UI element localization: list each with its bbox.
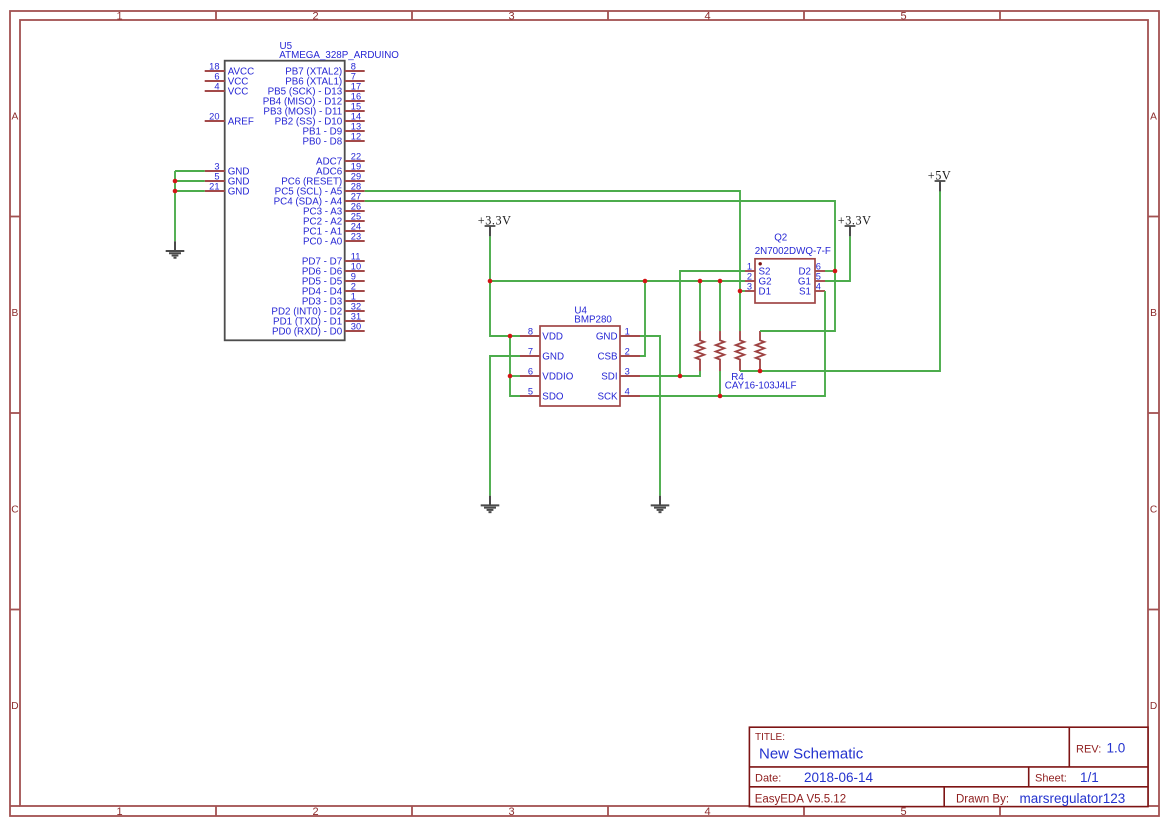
svg-text:SDI: SDI (601, 371, 617, 382)
svg-text:5: 5 (900, 806, 906, 818)
svg-text:CSB: CSB (597, 351, 618, 362)
svg-text:2018-06-14: 2018-06-14 (804, 770, 874, 785)
svg-text:25: 25 (351, 212, 361, 222)
svg-text:ATMEGA_328P_ARDUINO: ATMEGA_328P_ARDUINO (279, 50, 399, 61)
svg-text:3: 3 (508, 11, 514, 23)
svg-text:TITLE:: TITLE: (755, 732, 785, 743)
svg-text:GND: GND (596, 331, 618, 342)
svg-text:2N7002DWQ-7-F: 2N7002DWQ-7-F (755, 246, 831, 257)
svg-text:2: 2 (312, 11, 318, 23)
svg-text:5: 5 (900, 11, 906, 23)
svg-text:1: 1 (116, 11, 122, 23)
svg-text:3: 3 (747, 282, 752, 292)
svg-text:15: 15 (351, 102, 361, 112)
svg-text:27: 27 (351, 192, 361, 202)
svg-text:Q2: Q2 (774, 232, 787, 243)
svg-text:4: 4 (704, 11, 710, 23)
svg-text:SCK: SCK (597, 391, 618, 402)
svg-text:24: 24 (351, 222, 361, 232)
svg-text:4: 4 (704, 806, 710, 818)
svg-text:22: 22 (351, 152, 361, 162)
svg-text:1: 1 (747, 262, 752, 272)
svg-text:7: 7 (351, 72, 356, 82)
svg-text:16: 16 (351, 92, 361, 102)
svg-text:D: D (1150, 701, 1157, 712)
svg-text:8: 8 (351, 62, 356, 72)
svg-text:1: 1 (625, 327, 630, 337)
svg-text:3: 3 (625, 367, 630, 377)
svg-text:2: 2 (351, 282, 356, 292)
svg-text:Date:: Date: (755, 773, 781, 785)
svg-text:2: 2 (312, 806, 318, 818)
svg-text:+3.3V: +3.3V (838, 213, 872, 227)
svg-text:6: 6 (816, 262, 821, 272)
svg-text:29: 29 (351, 172, 361, 182)
svg-text:BMP280: BMP280 (574, 315, 612, 326)
svg-text:4: 4 (214, 82, 219, 92)
svg-text:13: 13 (351, 122, 361, 132)
svg-text:2: 2 (747, 272, 752, 282)
svg-text:A: A (12, 111, 19, 122)
svg-text:A: A (1150, 111, 1157, 122)
svg-text:4: 4 (625, 387, 630, 397)
svg-text:EasyEDA V5.5.12: EasyEDA V5.5.12 (755, 793, 846, 805)
svg-text:2: 2 (625, 347, 630, 357)
svg-text:GND: GND (228, 186, 250, 197)
svg-text:D: D (11, 701, 18, 712)
svg-text:VDDIO: VDDIO (542, 371, 573, 382)
svg-text:7: 7 (528, 347, 533, 357)
svg-text:B: B (12, 308, 19, 319)
svg-text:D1: D1 (759, 286, 772, 297)
svg-text:14: 14 (351, 112, 361, 122)
svg-text:20: 20 (209, 112, 219, 122)
svg-text:8: 8 (528, 327, 533, 337)
svg-text:4: 4 (816, 282, 821, 292)
svg-text:19: 19 (351, 162, 361, 172)
svg-text:18: 18 (209, 62, 219, 72)
svg-text:5: 5 (214, 172, 219, 182)
svg-text:C: C (1150, 504, 1157, 515)
svg-text:5: 5 (528, 387, 533, 397)
svg-text:New Schematic: New Schematic (759, 746, 864, 763)
svg-text:+3.3V: +3.3V (478, 213, 512, 227)
svg-text:31: 31 (351, 312, 361, 322)
svg-text:S1: S1 (799, 286, 811, 297)
svg-text:marsregulator123: marsregulator123 (1020, 791, 1126, 806)
svg-text:PB0 - D8: PB0 - D8 (302, 136, 342, 147)
svg-text:VCC: VCC (228, 86, 249, 97)
svg-text:3: 3 (508, 806, 514, 818)
svg-text:23: 23 (351, 232, 361, 242)
svg-text:6: 6 (214, 72, 219, 82)
svg-text:PC0 - A0: PC0 - A0 (303, 236, 343, 247)
svg-text:1: 1 (351, 292, 356, 302)
svg-text:32: 32 (351, 302, 361, 312)
svg-text:12: 12 (351, 132, 361, 142)
svg-text:GND: GND (542, 351, 564, 362)
svg-text:28: 28 (351, 182, 361, 192)
svg-text:Drawn By:: Drawn By: (956, 793, 1009, 805)
svg-text:1.0: 1.0 (1107, 741, 1126, 756)
svg-text:CAY16-103J4LF: CAY16-103J4LF (725, 381, 797, 392)
svg-text:C: C (11, 504, 18, 515)
svg-text:1: 1 (116, 806, 122, 818)
svg-text:21: 21 (209, 182, 219, 192)
svg-text:10: 10 (351, 262, 361, 272)
svg-text:1/1: 1/1 (1080, 770, 1099, 785)
svg-text:17: 17 (351, 82, 361, 92)
svg-text:3: 3 (214, 162, 219, 172)
svg-text:Sheet:: Sheet: (1035, 773, 1067, 785)
svg-text:11: 11 (351, 252, 361, 262)
svg-text:26: 26 (351, 202, 361, 212)
svg-text:REV:: REV: (1076, 744, 1101, 756)
svg-text:6: 6 (528, 367, 533, 377)
svg-text:AREF: AREF (228, 116, 254, 127)
svg-text:B: B (1150, 308, 1157, 319)
svg-text:5: 5 (816, 272, 821, 282)
svg-text:PD0 (RXD) - D0: PD0 (RXD) - D0 (272, 326, 343, 337)
svg-text:30: 30 (351, 322, 361, 332)
svg-text:VDD: VDD (542, 331, 563, 342)
svg-text:SDO: SDO (542, 391, 564, 402)
svg-text:+5V: +5V (928, 168, 951, 182)
svg-text:9: 9 (351, 272, 356, 282)
